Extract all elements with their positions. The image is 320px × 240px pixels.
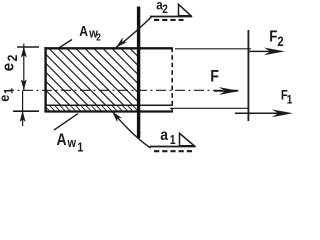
svg-text:w: w	[67, 135, 77, 150]
svg-text:1: 1	[170, 134, 176, 147]
svg-text:A: A	[79, 23, 88, 39]
e1 arrow up below bottom tick	[20, 112, 25, 122]
e1 extension tick bottom	[13, 110, 39, 112]
label e1 rotated	[0, 87, 16, 101]
e2 extension tick top	[17, 46, 39, 48]
bottom connector line	[170, 107, 248, 109]
svg-text:1: 1	[77, 140, 83, 155]
a2 leader bowed	[116, 17, 152, 48]
e1 dimension line	[22, 90, 24, 126]
svg-text:e: e	[0, 95, 12, 102]
plate bottom edge	[45, 110, 173, 112]
dimension arrow down at centerline	[21, 80, 26, 90]
Aw1 leader	[54, 114, 78, 130]
force application line vertical	[247, 30, 249, 121]
a1 fillet triangle	[180, 133, 195, 146]
centerline axis dash-dot	[8, 89, 238, 91]
a2 dashed identity line	[154, 19, 184, 21]
a1 leader bowed	[112, 111, 150, 148]
svg-text:F: F	[210, 68, 219, 86]
svg-text:2: 2	[4, 55, 20, 62]
e2 arrow up	[21, 47, 26, 57]
a1 dashed identity line	[154, 150, 194, 152]
plate left edge	[44, 47, 46, 112]
plate cross-section main hatch	[4, 49, 196, 106]
svg-text:A: A	[57, 131, 67, 149]
svg-text:2: 2	[162, 3, 168, 16]
svg-text:1: 1	[287, 94, 293, 107]
a2 fillet triangle	[179, 4, 192, 16]
svg-text:F: F	[269, 29, 277, 46]
force F2 arrow	[248, 50, 281, 52]
force F arrow	[214, 90, 237, 92]
svg-text:2: 2	[277, 34, 283, 49]
svg-text:e: e	[0, 63, 18, 72]
weld strip hatch Aw1	[44, 105, 143, 111]
plate hidden right edge dashed	[171, 48, 173, 113]
a1 leader arrowhead	[112, 111, 122, 122]
weld line vertical plate edge	[137, 7, 140, 139]
svg-text:1: 1	[3, 87, 16, 94]
svg-text:a: a	[160, 127, 169, 144]
strip top line	[45, 104, 173, 106]
e2 dimension line	[23, 44, 25, 91]
Aw2 leader	[58, 40, 72, 49]
a2 weld symbol reference line	[150, 16, 192, 18]
a1 weld symbol reference line	[150, 146, 196, 148]
a2 leader arrowhead	[116, 37, 127, 47]
label e2 rotated	[0, 55, 20, 72]
svg-text:2: 2	[96, 32, 101, 43]
top connector line	[175, 48, 251, 50]
plate top edge	[44, 47, 172, 49]
force F1 arrow	[235, 112, 289, 114]
